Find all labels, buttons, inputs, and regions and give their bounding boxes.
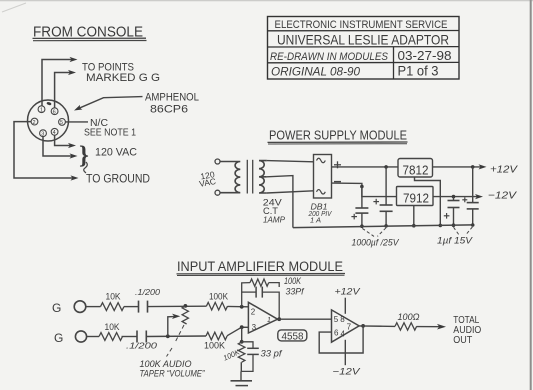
resistor 100K to ground (pin 3) [222,327,245,371]
svg-text:86CP6: 86CP6 [150,103,188,115]
svg-text:10K: 10K [106,292,121,302]
wire 100K to op-amp pin 3 [227,325,248,335]
svg-text:2: 2 [251,308,256,317]
transformer T1 primary terminal top [215,159,220,164]
label TO GROUND [86,174,150,186]
svg-text:5: 5 [334,315,339,324]
svg-text:33 pf: 33 pf [261,348,283,359]
label +12V [490,164,518,176]
svg-text:7912: 7912 [403,191,429,206]
svg-text:1: 1 [267,317,271,324]
connector pin 5 [59,119,66,127]
feedback wire op-amp2 pin 6 to output [319,324,365,353]
svg-text:INPUT AMPLIFIER MODULE: INPUT AMPLIFIER MODULE [177,259,343,274]
label 1000uF/25V with dashed leaders [352,228,401,249]
wire G bottom to 10K [87,336,99,338]
svg-text:10K: 10K [105,322,120,332]
svg-text:UNIVERSAL LESLIE ADAPTOR: UNIVERSAL LESLIE ADAPTOR [277,31,449,47]
resistor 10K (bottom) [99,322,123,340]
svg-text:8: 8 [340,315,345,324]
title block text RE-DRAWN IN MODULES [270,51,389,63]
svg-text:100K: 100K [284,276,302,286]
label TO POINTS MARKED G G [82,62,160,84]
svg-text:2: 2 [33,120,36,126]
connector J1 Amphenol 86CP6 shell [28,100,69,141]
svg-text:P1 of 3: P1 of 3 [398,64,439,79]
svg-text:G: G [52,301,61,315]
title POWER SUPPLY MODULE [268,129,408,144]
capacitor .1/200 (bottom) [126,331,157,351]
title FROM CONSOLE [33,23,147,40]
svg-text:+12V: +12V [335,287,362,298]
svg-text:4: 4 [341,329,346,338]
svg-text:3: 3 [252,323,257,332]
svg-text:−12V: −12V [333,366,362,377]
svg-text:−12V: −12V [488,189,517,201]
connector pin 3 [40,130,47,138]
wire 10K to cap (top) [124,306,139,308]
title block text 03-27-98 [398,48,452,63]
svg-text:100K: 100K [209,291,228,301]
dashed leader to pot label [167,325,185,357]
svg-text:6: 6 [334,328,339,337]
svg-text:120 VAC: 120 VAC [95,146,137,158]
svg-text:TAPER “VOLUME”: TAPER “VOLUME” [140,368,206,379]
op-amp U3b triangle [332,310,360,342]
wire 10K to cap (bottom) [122,336,138,338]
svg-text:1AMP: 1AMP [263,214,285,224]
wire pin5 N/C [65,117,136,139]
ground rail (power supply) [293,225,473,228]
wire pin4 to 120VAC arrow [55,135,76,148]
svg-text:1 A: 1 A [310,216,321,225]
svg-text:03-27-98: 03-27-98 [398,48,452,63]
title block text ELECTRONIC INSTRUMENT SERVICE [275,19,448,31]
svg-text:1: 1 [40,107,43,113]
wire bridge plus to 7812 [332,165,399,169]
svg-text:TO GROUND: TO GROUND [86,174,150,186]
wire +12V output with arrow [433,164,487,169]
wire G top to 10K [86,306,101,308]
resistor 100 ohm [395,312,420,330]
svg-text:7812: 7812 [403,162,429,177]
label 4558 [278,330,307,343]
wire secondary top to bridge [267,161,314,162]
svg-text:.1/200: .1/200 [126,341,157,351]
label -12V [488,189,517,201]
svg-text:+12V: +12V [490,164,518,176]
svg-text:100Ω: 100Ω [398,312,420,322]
svg-text:6: 6 [53,109,56,115]
label DB1 200PIV 1A [308,203,333,225]
regulator U2 7912 [397,187,434,206]
bridge rectifier DB1 [314,155,332,199]
wire 7912 ground pin [412,206,416,228]
wire center tap to ground rail [267,176,293,228]
ground symbol (input stage) [231,371,253,385]
transformer T1 secondary winding with taps [259,161,267,193]
svg-text:POWER SUPPLY MODULE: POWER SUPPLY MODULE [269,129,407,143]
title INPUT AMPLIFIER MODULE [177,259,346,275]
wire op-amp2 output to 100 ohm [359,325,395,328]
capacitor C3 1uF (minus output) [444,197,460,227]
brace and label 120 VAC [79,142,137,173]
wire secondary bottom to bridge [267,191,314,193]
svg-text:3: 3 [41,131,44,137]
wire cap to 100K (top) with pot junction [148,304,207,308]
svg-text:4: 4 [53,130,56,136]
op-amp U3a triangle [248,302,277,333]
wire pin1 to points arrow [42,57,78,106]
label 100K AUDIO TAPER VOLUME [140,359,206,380]
wire bridge minus to 7912 [332,183,397,197]
svg-text:SEE NOTE 1: SEE NOTE 1 [84,128,136,139]
transformer T1 core [247,160,252,194]
svg-text:AMPHENOL: AMPHENOL [145,92,199,104]
svg-text:100K: 100K [204,340,225,350]
svg-text:ELECTRONIC INSTRUMENT SERVICE: ELECTRONIC INSTRUMENT SERVICE [275,19,448,31]
title block text P1 of 3 [398,64,439,79]
svg-text:4558: 4558 [282,330,304,342]
regulator U1 7812 [398,159,433,178]
svg-text:1000µf /25V: 1000µf /25V [352,237,401,248]
connector pin 1 [38,106,45,114]
svg-text:.1/200: .1/200 [135,287,160,297]
capacitor .1/200 (top) [135,287,160,313]
connector pin 2 [31,118,38,126]
wire op-amp1 output to op-amp2 input [278,318,332,320]
capacitor C1 1000uF (minus rail) [351,187,368,229]
wire -12V supply to pin 4 [333,340,362,378]
svg-text:5: 5 [60,120,63,126]
wire 7812 ground pin [415,177,443,227]
wire -12V output with arrow [433,194,483,199]
potentiometer 100K audio taper [182,306,188,324]
feedback resistor 100K (op-amp 1) [242,276,302,307]
wire +12V supply to pin 8 [335,287,362,314]
input terminal G (top) [52,301,86,315]
wire pin2 to ground arrow [14,122,79,181]
svg-text:MARKED G G: MARKED G G [86,72,160,84]
transformer T1 primary terminal bottom [215,190,220,195]
svg-text:RE-DRAWN IN MODULES: RE-DRAWN IN MODULES [270,51,389,63]
input terminal G (bottom) [54,331,87,345]
title block text UNIVERSAL LESLIE ADAPTOR [277,31,449,47]
svg-text:33Pf: 33Pf [286,286,305,297]
connector pin 6 [51,108,58,116]
wire to total audio out arrow [417,324,447,330]
capacitor C4 1uF (plus output) [462,167,478,227]
capacitor 33pF to ground (pin 3) [241,342,283,372]
pot wiper wire with arrow [168,314,181,337]
bridge minus sign [334,181,341,183]
resistor 100K (top series) [206,291,228,310]
label AMPHENOL 86CP6 with leader arrow [74,92,199,116]
wire 100K to op-amp pin 2 [228,305,249,309]
capacitor C2 1000uF (plus rail) [373,167,392,228]
label 24V C.T 1AMP [263,198,286,225]
svg-text:7: 7 [347,322,352,331]
wire pin3 to 120VAC arrow [43,137,78,159]
label 120 VAC (transformer primary) [197,169,217,189]
resistor 10K (top) [101,292,125,311]
connector pin 4 [51,128,58,136]
bridge plus sign [334,161,341,168]
svg-text:1µf 15V: 1µf 15V [437,235,474,246]
wire cap to 100K (bottom) with wiper junction [146,334,206,338]
svg-text:ORIGINAL 08-90: ORIGINAL 08-90 [271,66,361,78]
resistor 100K (bottom series) [204,332,227,350]
wire pin6 to points arrow [55,70,76,108]
feedback capacitor 33pF (op-amp 1) [242,286,305,321]
svg-text:G: G [54,331,63,345]
svg-text:OUT: OUT [453,335,472,346]
title block table [268,17,460,80]
title block text ORIGINAL 08-90 [271,66,361,78]
label 1uF 15V with dashed leaders [437,227,474,247]
transformer T1 primary winding [220,162,240,193]
label TOTAL AUDIO OUT [453,315,481,346]
